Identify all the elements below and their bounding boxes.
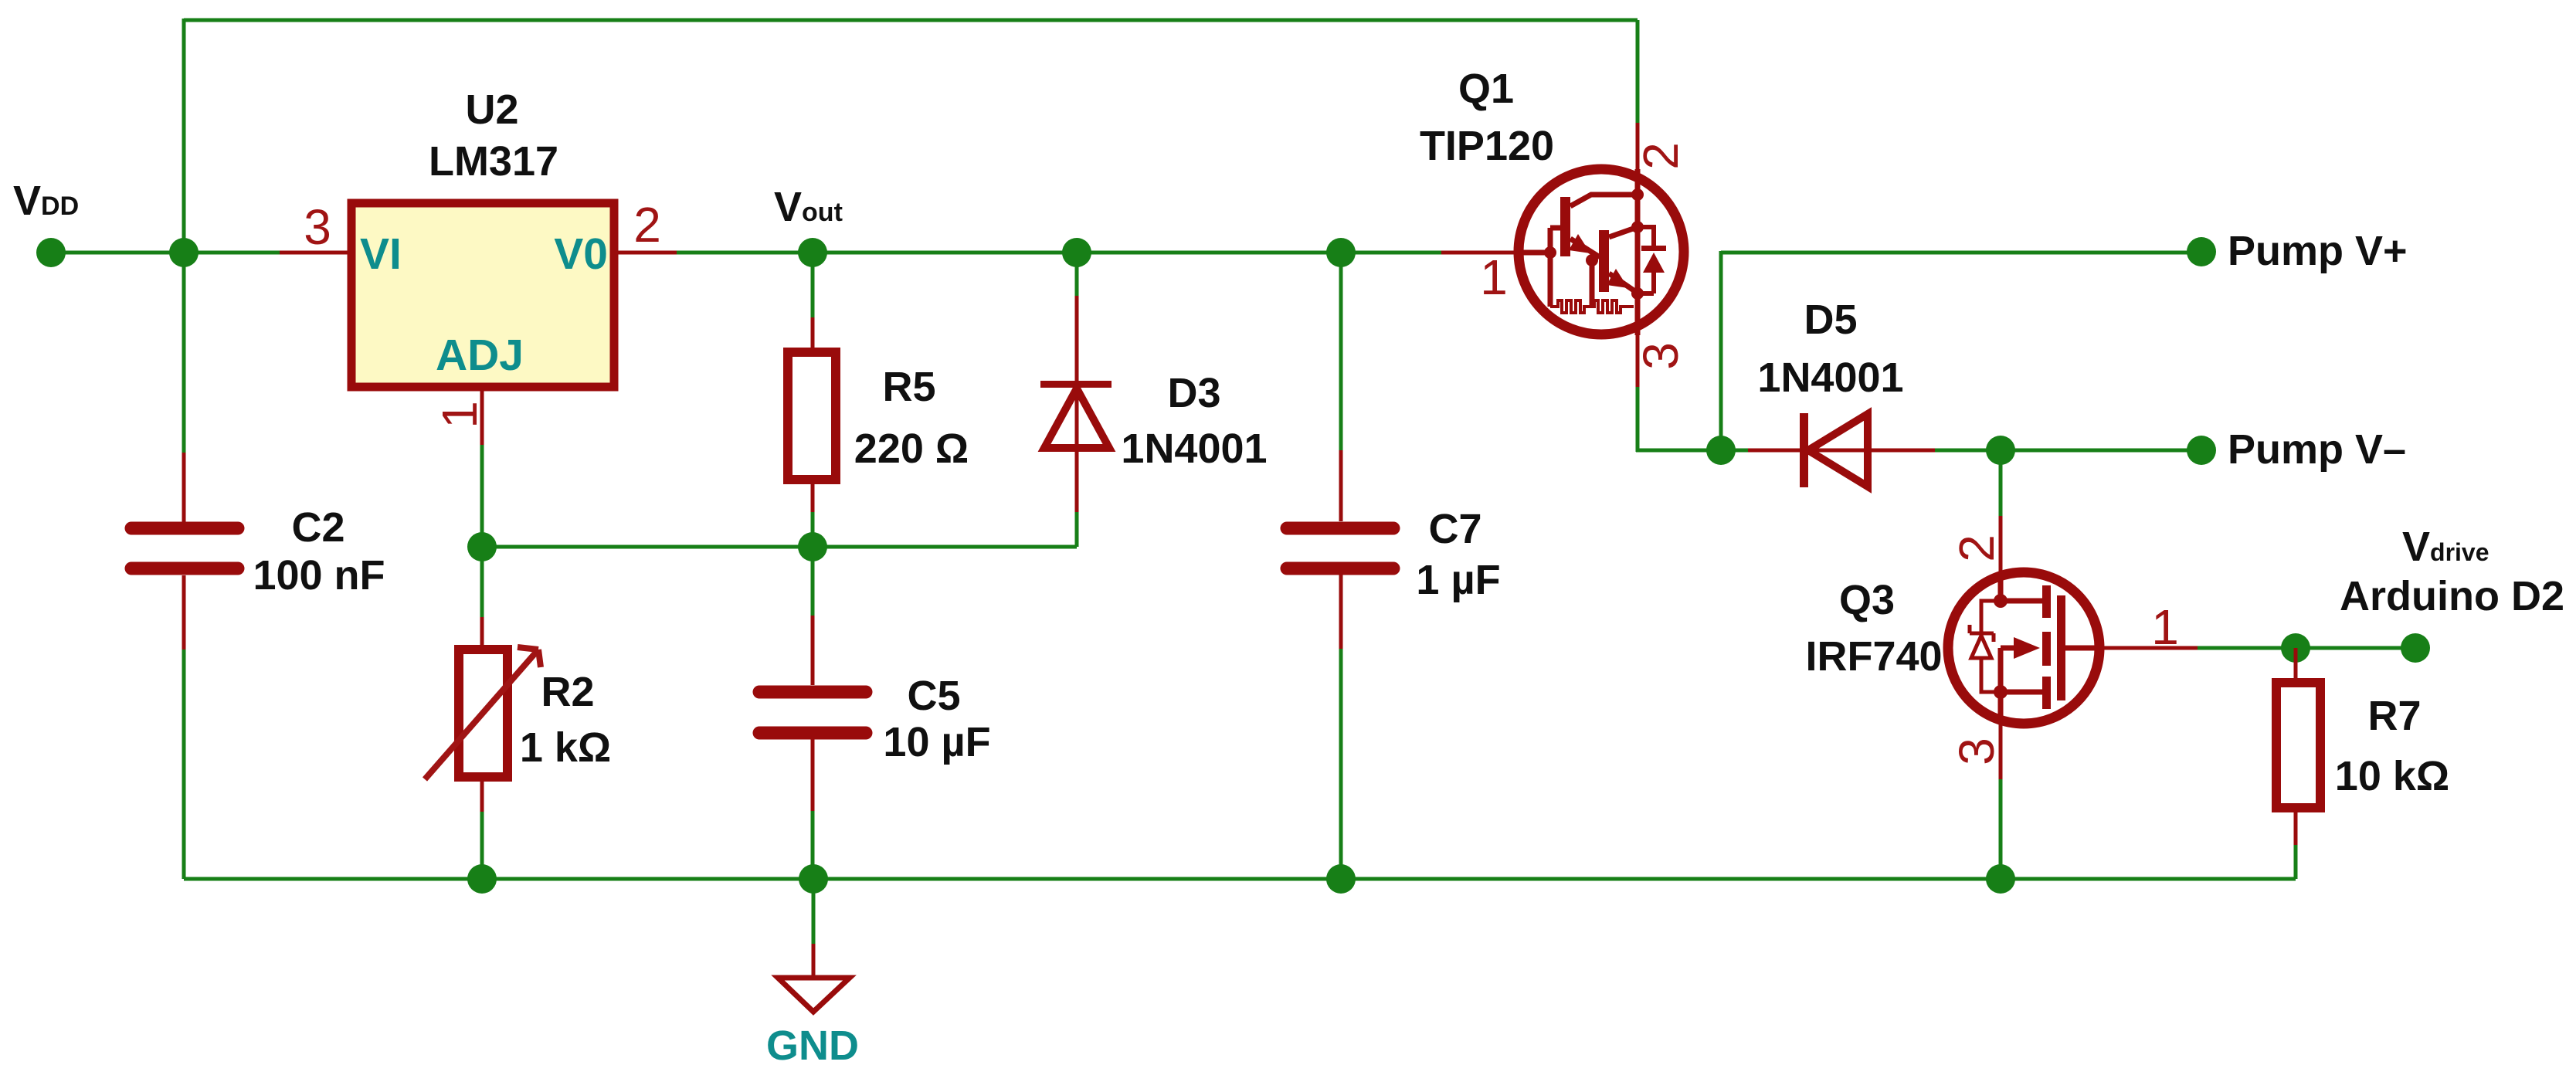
svg-text:1 kΩ: 1 kΩ bbox=[520, 724, 611, 771]
wire VDD stub bbox=[51, 251, 280, 255]
wire Vout rail bbox=[677, 251, 1441, 255]
svg-text:2: 2 bbox=[633, 197, 661, 253]
Q1 T1 emitter bbox=[1570, 239, 1600, 257]
svg-text:10 kΩ: 10 kΩ bbox=[2335, 753, 2449, 799]
ground symbol bbox=[812, 879, 816, 944]
Q3 drain horizontal bbox=[2001, 599, 2046, 604]
node Q3 source bottom bbox=[1986, 864, 2015, 894]
svg-text:R2: R2 bbox=[541, 669, 594, 715]
Q1 internal diode bbox=[1638, 227, 1654, 293]
svg-text:1: 1 bbox=[2151, 599, 2179, 655]
node Pump V+ terminal bbox=[2187, 237, 2216, 266]
svg-text:2: 2 bbox=[1949, 534, 2004, 562]
Q1 T2 collector bbox=[1609, 227, 1638, 237]
diode D5 bbox=[1748, 449, 1935, 453]
Q3 gate wire inside bbox=[2065, 646, 2099, 651]
node C5/GND bottom bbox=[799, 864, 828, 894]
pin 1 stub U2 ADJ bbox=[480, 387, 484, 445]
svg-text:Vdrive: Vdrive bbox=[2402, 524, 2489, 570]
Q3 body diode bbox=[1981, 601, 2001, 692]
svg-text:VI: VI bbox=[360, 229, 402, 279]
wire Pump V+ bbox=[1721, 251, 2201, 255]
node D5 anode junction bbox=[1706, 436, 1736, 465]
Q1 circle bbox=[1519, 169, 1684, 334]
wire Pump V+ riser bbox=[1719, 251, 1723, 450]
node C7 bottom bbox=[1326, 864, 1356, 894]
wire gate to Arduino bbox=[2198, 646, 2415, 650]
node VDD terminal bbox=[36, 238, 66, 267]
svg-text:100 nF: 100 nF bbox=[253, 552, 385, 599]
R2 wiper arrow bbox=[425, 647, 541, 779]
svg-text:1 µF: 1 µF bbox=[1416, 557, 1500, 603]
Q3 source down inside bbox=[1998, 692, 2004, 724]
Q1 internal vertical bbox=[1635, 195, 1641, 293]
svg-text:1N4001: 1N4001 bbox=[1757, 354, 1903, 401]
Q3 circle bbox=[1948, 572, 2099, 724]
svg-text:Pump V–: Pump V– bbox=[2228, 426, 2406, 473]
Q1 pin 3 stub bbox=[1635, 293, 1641, 335]
Q3 drain wire from D5 node bbox=[1999, 450, 2003, 516]
svg-text:1: 1 bbox=[432, 401, 487, 429]
Q3 body connection and arrow bbox=[2001, 648, 2018, 692]
node R2 bottom bbox=[467, 864, 497, 894]
svg-text:2: 2 bbox=[1633, 142, 1688, 170]
wire ADJ pin down bbox=[480, 445, 484, 547]
wire left VDD column upper bbox=[182, 19, 186, 453]
wire top rail bbox=[184, 19, 1638, 22]
svg-text:IRF740: IRF740 bbox=[1805, 633, 1942, 680]
Q3 pin 3 stub bbox=[1999, 724, 2003, 779]
Q3 pin 1 stub bbox=[2099, 646, 2198, 650]
Q1 pin 1 stub bbox=[1441, 251, 1519, 255]
svg-text:V0: V0 bbox=[554, 229, 608, 279]
Q3 drain node dot bbox=[1994, 594, 2008, 608]
svg-text:D5: D5 bbox=[1804, 297, 1857, 343]
wire ADJ node horizontal bbox=[482, 545, 1077, 549]
capacitor C7 bbox=[1339, 253, 1343, 450]
node Vout bbox=[798, 238, 827, 267]
node D5 cathode junction bbox=[1986, 436, 2015, 465]
svg-text:Arduino D2: Arduino D2 bbox=[2340, 573, 2564, 619]
transistor Q3 IRF740 bbox=[1948, 450, 2198, 779]
svg-text:3: 3 bbox=[304, 199, 331, 255]
Q3 source horizontal bbox=[2001, 690, 2046, 695]
resistor R7 bbox=[2294, 648, 2298, 678]
Q1 T2 emitter bbox=[1609, 273, 1636, 292]
wire Q1 emitter down bbox=[1636, 387, 1640, 452]
Q3 source node dot bbox=[1994, 685, 2008, 699]
wire top rail drop to Q1 collector bbox=[1636, 20, 1640, 123]
pin 2 stub U2 V0 bbox=[614, 251, 677, 255]
wire bottom ground rail bbox=[184, 877, 2296, 881]
svg-text:LM317: LM317 bbox=[429, 138, 558, 185]
svg-text:10 µF: 10 µF bbox=[883, 719, 990, 765]
node ADJ junction bbox=[467, 532, 497, 561]
svg-text:Q3: Q3 bbox=[1839, 577, 1895, 623]
svg-text:1: 1 bbox=[1480, 249, 1508, 305]
Q1 pin 2 stub bbox=[1636, 123, 1640, 169]
svg-text:C5: C5 bbox=[907, 673, 960, 719]
Q1 resistor rail with zigzags bbox=[1550, 300, 1634, 313]
Q3 gate bar bbox=[2057, 595, 2065, 700]
node Arduino D2 terminal bbox=[2401, 633, 2430, 663]
capacitor C2 bbox=[182, 453, 186, 522]
diode D3 bbox=[1075, 253, 1079, 296]
svg-text:C7: C7 bbox=[1428, 506, 1481, 552]
node D3 top bbox=[1062, 238, 1091, 267]
node Pump V- terminal bbox=[2187, 436, 2216, 465]
pin 3 stub U2 VI bbox=[280, 251, 351, 255]
node R5/C5 junction bbox=[798, 532, 827, 561]
op-amp U2 LM317 regulator box bbox=[351, 203, 614, 387]
svg-text:ADJ: ADJ bbox=[436, 331, 524, 380]
capacitor C5 bbox=[811, 547, 815, 616]
wire Q1 emitter to D5 bbox=[1636, 449, 1750, 453]
svg-text:R7: R7 bbox=[2367, 693, 2421, 739]
svg-text:Q1: Q1 bbox=[1458, 66, 1514, 112]
node VDD junction bbox=[169, 238, 199, 267]
svg-text:GND: GND bbox=[766, 1023, 859, 1069]
svg-text:3: 3 bbox=[1633, 342, 1688, 370]
transistor Q1 TIP120 bbox=[1441, 123, 1684, 387]
svg-text:D3: D3 bbox=[1167, 370, 1220, 416]
node R7 top junction bbox=[2281, 633, 2310, 663]
node C7 top bbox=[1326, 238, 1356, 267]
svg-text:Pump V+: Pump V+ bbox=[2228, 228, 2408, 274]
Q1 T2 base bar bbox=[1599, 230, 1609, 292]
svg-text:Vout: Vout bbox=[774, 184, 843, 230]
svg-text:3: 3 bbox=[1949, 738, 2004, 765]
svg-text:VDD: VDD bbox=[13, 178, 79, 224]
resistor R2 potentiometer bbox=[480, 547, 484, 617]
svg-text:R5: R5 bbox=[882, 364, 935, 410]
Q1 T1 base bar bbox=[1560, 197, 1570, 256]
svg-text:TIP120: TIP120 bbox=[1420, 123, 1554, 169]
Q3 channel contact bars bbox=[2042, 585, 2051, 618]
wire Q3 source to bottom bbox=[1999, 779, 2003, 879]
Q1 T1 collector bbox=[1570, 195, 1638, 206]
resistor R5 bbox=[811, 253, 815, 317]
svg-text:C2: C2 bbox=[291, 504, 344, 551]
svg-text:U2: U2 bbox=[465, 86, 518, 133]
svg-text:220 Ω: 220 Ω bbox=[854, 426, 969, 472]
svg-text:1N4001: 1N4001 bbox=[1121, 426, 1267, 472]
Q1 base network bbox=[1550, 228, 1562, 307]
